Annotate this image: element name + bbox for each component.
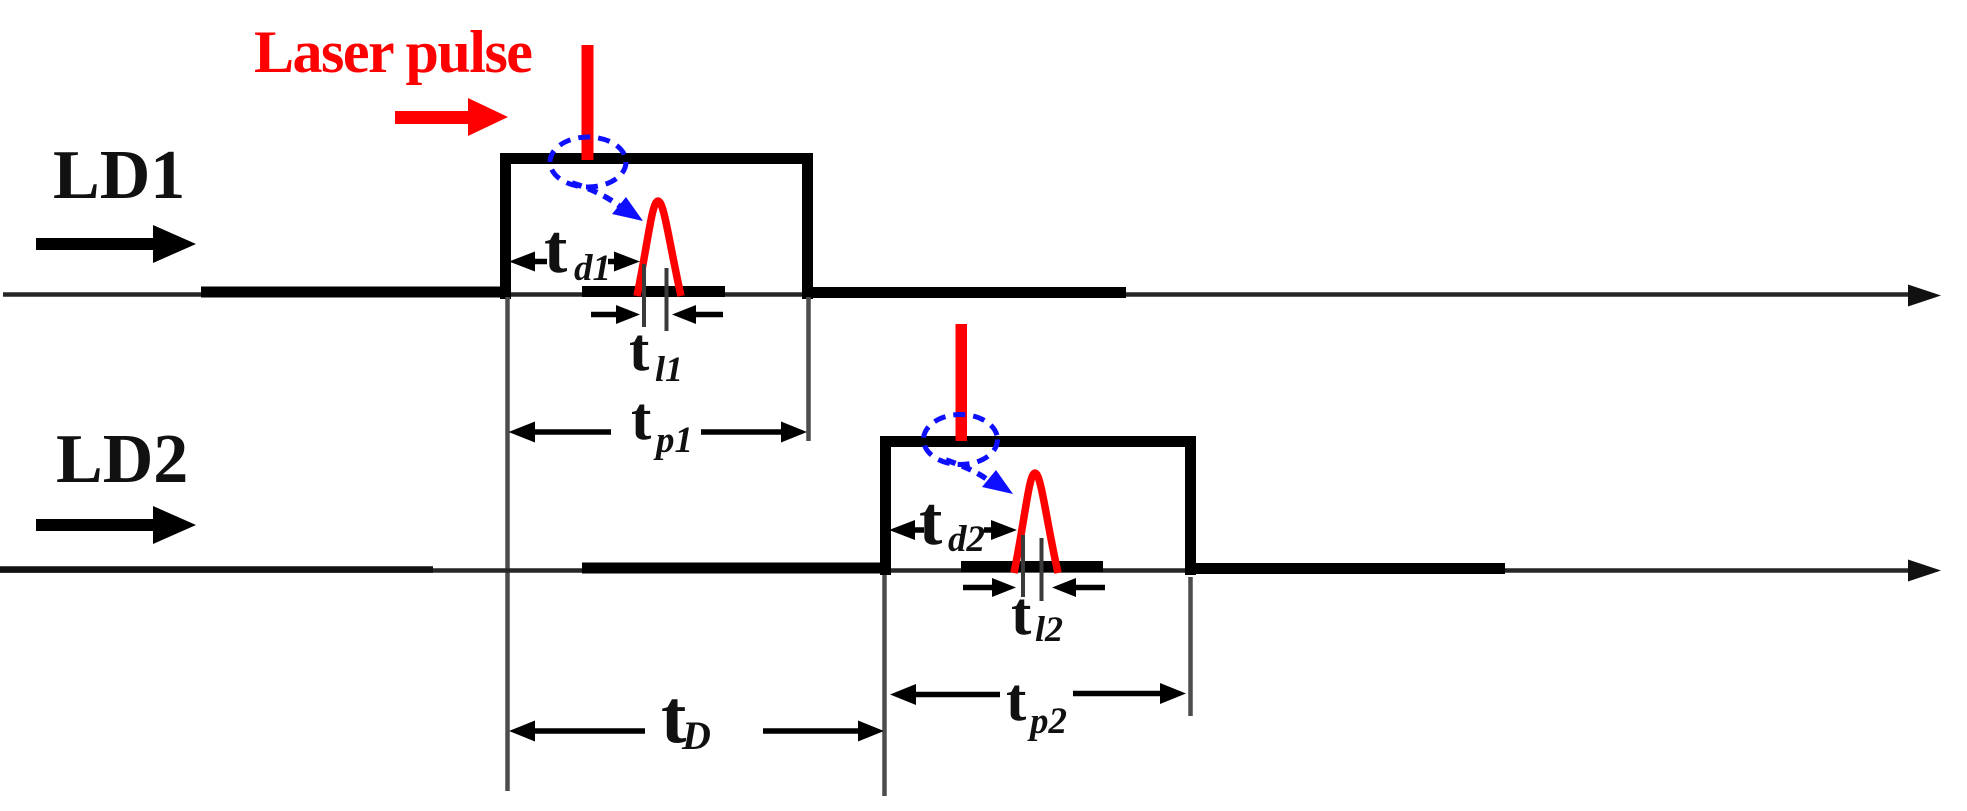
blue hook arrow 1 [572, 183, 622, 208]
svg-text:l2: l2 [1035, 609, 1063, 649]
t_D left arrow [526, 728, 645, 734]
red optical peak 2 [1014, 473, 1058, 573]
svg-text:d1: d1 [574, 248, 611, 289]
reference line pulse1 left edge [505, 297, 510, 791]
blue hook arrow 2 [946, 460, 992, 483]
svg-text:p1: p1 [653, 420, 693, 461]
svg-text:d2: d2 [948, 519, 985, 560]
t_d1 left arrow [517, 259, 547, 265]
t_l2 tick right [1040, 538, 1044, 601]
t_d2 right arrow [984, 527, 997, 533]
t_d2 left arrow [897, 527, 924, 533]
arrow under LD1 [36, 225, 196, 263]
axis LD1 arrowhead [1908, 285, 1941, 307]
svg-text:D: D [681, 713, 711, 758]
red optical peak 1 [637, 201, 681, 296]
blue dashed ellipse 1 [550, 137, 626, 187]
thick segment LD1 right of pulse [804, 287, 1126, 298]
pulse LD1 rectangle [506, 159, 808, 300]
t_l1 tick right [665, 268, 669, 331]
thick segment LD2 left of pulse [582, 563, 891, 574]
t_l1 left arrow [591, 312, 622, 318]
red laser line 2 [956, 324, 968, 441]
reference line pulse2 left edge [882, 575, 887, 796]
svg-text:t: t [544, 211, 567, 288]
pulse LD2 rectangle [886, 442, 1191, 576]
red arrow under Laser pulse [395, 98, 508, 136]
t_p1 left arrow [528, 429, 611, 435]
svg-text:t: t [631, 386, 652, 453]
t_p1 right arrow [701, 429, 788, 435]
t_l2 tick left [1021, 535, 1025, 597]
axis LD2 arrowhead [1908, 560, 1941, 582]
arrow under LD2 [36, 506, 196, 544]
svg-text:LD2: LD2 [56, 421, 188, 498]
medium segment LD2 far left [0, 566, 433, 573]
svg-text:t: t [919, 483, 942, 560]
t_d1 right arrow [608, 259, 628, 265]
svg-text:l1: l1 [655, 349, 683, 389]
thick segment LD2 under peak [961, 561, 1103, 572]
svg-text:t: t [629, 317, 650, 384]
t_p2 right arrow [1073, 691, 1160, 697]
thick segment LD1 under peak [582, 286, 725, 297]
reference line pulse1 right edge [806, 297, 811, 441]
axis line LD2 [0, 568, 1914, 573]
blue dashed ellipse 2 [924, 415, 998, 465]
t_D right arrow [763, 728, 860, 734]
t_l1 tick left [642, 264, 646, 327]
thick segment LD2 right of pulse [1186, 563, 1505, 574]
reference line pulse2 right edge [1188, 577, 1193, 716]
svg-text:Laser pulse: Laser pulse [254, 19, 532, 85]
t_l2 left arrow [963, 585, 997, 591]
t_p2 left arrow [908, 692, 1000, 698]
t_l2 right arrow [1075, 585, 1105, 591]
red laser line 1 [582, 45, 594, 160]
svg-text:t: t [1006, 667, 1027, 734]
svg-text:LD1: LD1 [53, 137, 185, 214]
axis line LD1 [3, 292, 1914, 297]
svg-text:p2: p2 [1027, 701, 1067, 742]
t_l1 right arrow [696, 312, 723, 318]
thick segment LD1 left of pulse [201, 287, 511, 298]
svg-text:t: t [1011, 581, 1032, 648]
